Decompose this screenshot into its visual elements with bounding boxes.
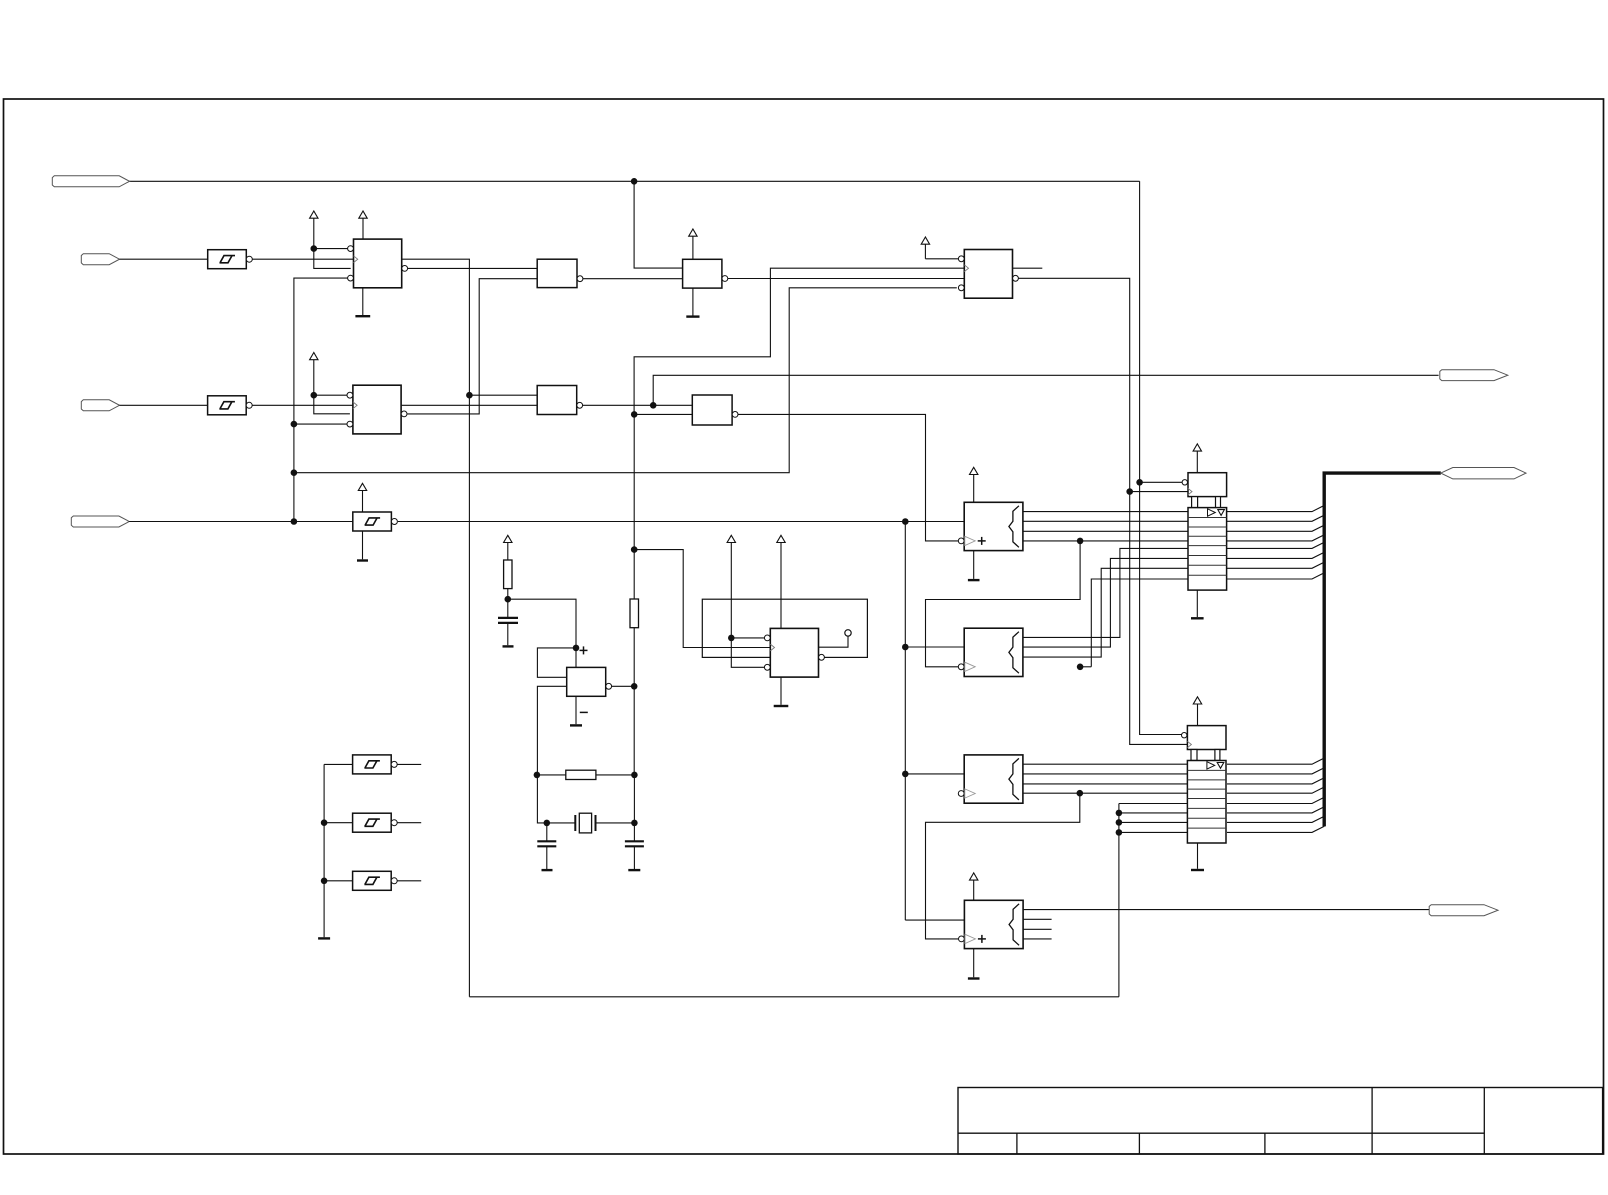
title block horizontal divider (958, 1132, 1484, 1134)
test point terminal (845, 630, 851, 636)
junction reset branch right (291, 469, 298, 476)
wire DAC2 out bit4 to bus (1227, 787, 1324, 793)
ground FF4 (774, 705, 789, 707)
comparator output bubble (606, 683, 612, 689)
counter C4 (964, 900, 1023, 948)
wire FF1Q bottom run (469, 996, 1119, 998)
wire plus node into comparator top (575, 648, 577, 668)
junction RC node (505, 596, 512, 603)
junction schmitt U6 tap (321, 819, 328, 826)
wire C4 Q4 stub (1023, 938, 1052, 940)
wire DAC1 out bit5 to bus (1226, 542, 1324, 548)
wire data into counter C2 (905, 646, 964, 648)
wire DAC1 out bit2 to bus (1226, 515, 1324, 521)
wire DAC1 gnd stub (1196, 590, 1198, 617)
wire flag2 to schmitt U1 (120, 258, 208, 260)
wire oscillator net vertical upper (633, 414, 635, 599)
junction comparator output (631, 683, 638, 690)
junction comparator plus node (573, 645, 580, 652)
wire R1 to node (507, 589, 509, 600)
node A1 junction at DAC1 pin (1136, 479, 1143, 486)
power VCC arrow gate G2 (689, 229, 697, 236)
power VCC arrow FF4 top (777, 535, 785, 542)
wire C1 Q4 to DAC1 (1023, 540, 1188, 542)
wire C2 Q3 to DAC1 bit7 (1023, 568, 1188, 657)
wire reset into FF2 (294, 423, 350, 425)
junction oscillator net / gate GB in (631, 411, 638, 418)
wire DAC2 out bit7 to bus (1227, 816, 1324, 822)
wire DAC2 out bit3 to bus (1227, 778, 1324, 784)
wire reset long branch (294, 288, 957, 473)
title block divider v5 (1483, 1088, 1485, 1155)
wire FF1 Q into gate GA (469, 394, 537, 396)
junction data to counter C2 (902, 644, 909, 651)
wire input-A vertical drop (1139, 181, 1141, 482)
wire C1 Q2 to DAC1 (1023, 520, 1188, 522)
ground FF1 (355, 315, 370, 317)
wire branch to output flag1 (653, 375, 1438, 405)
wire node to comparator plus (508, 599, 576, 648)
junction feedback resistor left (534, 772, 541, 779)
power VCC arrow FF1 pins (310, 211, 318, 218)
output connector flag 3 (1429, 905, 1498, 916)
wire FF1 reset to chain (294, 278, 348, 521)
oscillator module outline (702, 599, 867, 657)
junction U3 output / counters data bus (902, 518, 909, 525)
junction osc to FF4 clock branch (631, 546, 638, 553)
capacitor C3 right (633, 823, 635, 841)
wire C1Q4 to C2 clock (926, 541, 1081, 667)
crystal Y1 (574, 815, 576, 831)
wire C1 Q3 to DAC1 (1023, 530, 1188, 532)
wire crystal left lead (547, 822, 576, 824)
wire comparator feedback loop (537, 648, 576, 677)
wire DAC1 out bit7 to bus (1226, 562, 1324, 568)
wire FF4 gnd stub (780, 677, 782, 705)
wire FF4 reset tie (731, 638, 764, 667)
wire osc net low (633, 775, 635, 823)
wire schmitt U3 gnd stub (362, 531, 364, 559)
wire gate GA out (580, 404, 693, 406)
junction GA out branch (650, 402, 657, 409)
wire DAC2 out bit2 to bus (1227, 768, 1324, 774)
wire DAC2 bit7 line (1119, 821, 1188, 823)
junction DAC2 bit6 tie (1116, 810, 1123, 817)
junction DAC2 bit7 tie (1116, 819, 1123, 826)
flip-flop FF4 (770, 628, 818, 677)
DAC register DA1 (1188, 473, 1227, 497)
wire FF1 Qbar to gate G1 (407, 267, 537, 269)
wire schmitt U5 out stub (395, 763, 421, 765)
wire branch to FF4 clock (634, 550, 770, 648)
counter C2 (964, 628, 1023, 676)
wire DAC2 out bit1 to bus (1227, 758, 1324, 764)
power VCC arrow FF4 pins (727, 535, 735, 542)
wire into schmitt U6 (324, 822, 353, 824)
wire into gate GB (634, 413, 692, 415)
gate GA (537, 386, 577, 415)
wire FF3 Q stub (1013, 267, 1043, 269)
wire DAC1 pin1 stub (1140, 481, 1182, 483)
ground gate G2 (686, 315, 699, 317)
wire DAC1 out bit3 to bus (1226, 525, 1324, 531)
input connector flag 1 (52, 176, 129, 187)
wire gate G2 gnd stub (692, 288, 694, 317)
wire DAC2 bit5 tie (1119, 803, 1188, 805)
comparator U4 box (567, 667, 606, 696)
wire C2 Q2 to DAC1 bit6 (1023, 558, 1188, 647)
wire FF1 set branch (314, 248, 348, 250)
wire DAC1 out bit4 to bus (1226, 535, 1324, 541)
wire FF2 Q to gate GA (402, 404, 538, 406)
wire flag4 to schmitt U3 (129, 521, 353, 523)
bus to output flag2 (1324, 473, 1441, 826)
resistor R3 vertical (630, 599, 639, 628)
wire comparator gnd stub (575, 696, 577, 724)
wire C2 Q4 to DAC1 bit8 (1091, 579, 1188, 667)
wire C4 Q2 stub (1023, 918, 1052, 920)
counter C3 (964, 755, 1023, 803)
wire FF2 D tie (314, 395, 350, 414)
output connector flag 1 (1440, 370, 1508, 381)
wire C1 Q1 to DAC1 (1023, 511, 1188, 513)
wire gate G1 out to G2 (580, 278, 682, 280)
title block divider v4 (1371, 1088, 1373, 1155)
ground capacitor C2 (542, 869, 553, 871)
power VCC arrow schmitt U3 (358, 483, 366, 490)
wire DAC2 bit6 line (1119, 812, 1188, 814)
wire counters data vertical (904, 522, 906, 921)
plus sign comparator input (580, 649, 588, 651)
title block divider v3 (1264, 1133, 1266, 1154)
wire osc net mid (633, 628, 635, 775)
power VCC arrow counter C4 (970, 873, 978, 880)
wire C3 Q4 to DAC2 (1023, 792, 1188, 794)
wire DAC2 out bit5 to bus (1227, 797, 1324, 803)
power VCC arrow RC divider (504, 535, 512, 542)
ground DAC2 (1191, 869, 1204, 871)
resistor R2 feedback (566, 770, 596, 779)
wire comparator out to osc net (612, 685, 635, 687)
wire FF1Q riser to DAC2 low bits (1118, 804, 1120, 997)
junction reset at FF2 (291, 421, 298, 428)
wire DAC2 gnd stub (1197, 842, 1199, 869)
gate G2 (683, 259, 722, 288)
flip-flop FF1 (354, 239, 402, 288)
wire FF1 gnd stub (362, 288, 364, 316)
wire gate GB out to counter C1 clock (735, 414, 958, 541)
wire schmitt U2 out to FF2 clock (252, 404, 353, 406)
DAC register DA2 (1187, 726, 1226, 750)
wire DAC2 out bit6 to bus (1227, 807, 1324, 813)
wire C3Q4 to C4 clock (926, 793, 1080, 939)
gate G1 (537, 259, 577, 287)
schmitt trigger U5 (353, 755, 392, 774)
ground comparator (570, 724, 582, 726)
wire C3 Q3 to DAC2 (1023, 783, 1188, 785)
junction crystal right node (631, 820, 638, 827)
wire feedback resistor to osc net (596, 774, 635, 776)
power VCC arrow counter C1 (970, 467, 978, 474)
wire schmitt group common vertical (323, 764, 325, 937)
ground schmitt group (318, 937, 330, 939)
junction input-A / gate-G2 branch (631, 178, 638, 185)
junction feedback resistor right (631, 772, 638, 779)
schmitt trigger U7 (353, 871, 392, 890)
wire input-A horizontal (130, 180, 1140, 182)
wire FF1 set/D tie (314, 249, 351, 269)
wire crystal right lead (596, 822, 635, 824)
junction data to counter C3 (902, 771, 909, 778)
junction FF1 Q to gate GA (466, 392, 473, 399)
wire FF4 set branch (731, 637, 764, 639)
input connector flag 2 (81, 254, 119, 265)
wire C2 Q1 to DAC1 bit5 (1023, 548, 1188, 637)
ground counter C4 (968, 977, 980, 979)
wire FF4 Q to test point (819, 636, 848, 647)
junction FF3 Qbar at DAC1 clock (1126, 488, 1133, 495)
resistor R1 vertical (504, 560, 512, 589)
wire A vertical to DAC2 (1140, 482, 1182, 734)
wire data into counter C3 (905, 773, 964, 775)
schmitt trigger U3 (353, 512, 392, 531)
junction C1 Q4 ripple (1077, 538, 1084, 545)
power VCC arrow FF1 top (359, 211, 367, 218)
wire data into counter C4 (905, 919, 964, 921)
junction FF4 power tie (728, 635, 735, 642)
wire schmitt U3 out to counter C1 data (398, 521, 964, 523)
wire FF3 set stub (925, 258, 958, 260)
schmitt trigger U1 (208, 250, 247, 269)
wire C1 gnd stub (973, 551, 975, 579)
wire C4 gnd stub (973, 949, 975, 978)
input connector flag 3 (81, 400, 119, 411)
counter C1 (964, 502, 1023, 550)
wire C3 Q1 to DAC2 (1023, 763, 1188, 765)
wire schmitt U1 out to FF1 clock (253, 258, 354, 260)
minus sign comparator (580, 711, 588, 713)
wire netA down to crystal (537, 775, 546, 823)
wire DAC1 out bit1 to bus (1226, 505, 1324, 511)
junction C2 Q4 ripple (1077, 664, 1084, 671)
capacitor C1 plates (498, 617, 518, 619)
wire FF2 Qbar up to gate G1 (407, 279, 537, 414)
wire DAC1 out bit6 to bus (1226, 552, 1324, 558)
flip-flop FF3 (964, 250, 1012, 299)
wire FF3 Qbar down to DAC2 clock (1016, 278, 1188, 744)
title block outline (958, 1088, 1603, 1155)
ground schmitt U3 (357, 559, 368, 561)
title block divider v2 (1138, 1133, 1140, 1154)
junction FF1 power tie (311, 245, 318, 252)
power VCC arrow FF2 (310, 353, 318, 360)
wire FF3 clock net (634, 268, 964, 414)
wire gate G2 out to FF3 D (725, 278, 964, 280)
wire C2Q4 ripple segment (1080, 666, 1091, 668)
junction FF2 power tie (311, 392, 318, 399)
power VCC arrow DAC1 (1193, 444, 1201, 451)
ground counter C1 (968, 579, 980, 581)
power VCC arrow FF3 (921, 237, 929, 244)
wire C4 Q1 to output flag3 (1023, 909, 1429, 911)
wire branch to gate G2 input (634, 181, 683, 268)
wire schmitt U6 out stub (395, 822, 421, 824)
junction DAC2 bit8 tie (1116, 829, 1123, 836)
wire FF2 set branch (314, 394, 348, 396)
capacitor C2 left (546, 823, 548, 841)
wire DAC1 out bit8 to bus (1226, 573, 1324, 579)
schmitt trigger U6 (353, 813, 392, 832)
power VCC arrow DAC2 (1193, 697, 1201, 704)
ground DAC1 (1191, 617, 1204, 619)
junction flag4 line / reset net (291, 518, 298, 525)
junction C3 Q4 ripple (1077, 790, 1084, 797)
wire DAC2 bit8 line (1119, 831, 1188, 833)
title block divider v1 (1016, 1133, 1018, 1154)
wire FF1 Q to vertical (402, 259, 470, 997)
flip-flop FF2 (353, 385, 401, 434)
junction crystal left node (544, 820, 551, 827)
output connector flag 2 (bus) (1441, 468, 1526, 479)
input connector flag 4 (71, 516, 129, 527)
gate GB (692, 395, 732, 425)
wire schmitt U7 out stub (395, 880, 421, 882)
ground capacitor C3 (628, 869, 640, 871)
wire comparator minus pin down (537, 686, 566, 775)
wire DAC1 clock stub (1130, 491, 1188, 493)
wire flag3 to schmitt U2 (120, 404, 208, 406)
schmitt trigger U2 (208, 396, 247, 415)
ground capacitor C1 (503, 645, 514, 647)
wire C3 Q2 to DAC2 (1023, 773, 1188, 775)
wire to feedback resistor (537, 774, 566, 776)
wire C4 Q3 stub (1023, 928, 1052, 930)
wire into schmitt U5 (324, 763, 353, 765)
wire into schmitt U7 (324, 880, 353, 882)
wire DAC2 out bit8 to bus (1227, 826, 1324, 832)
junction schmitt U7 tap (321, 878, 328, 885)
